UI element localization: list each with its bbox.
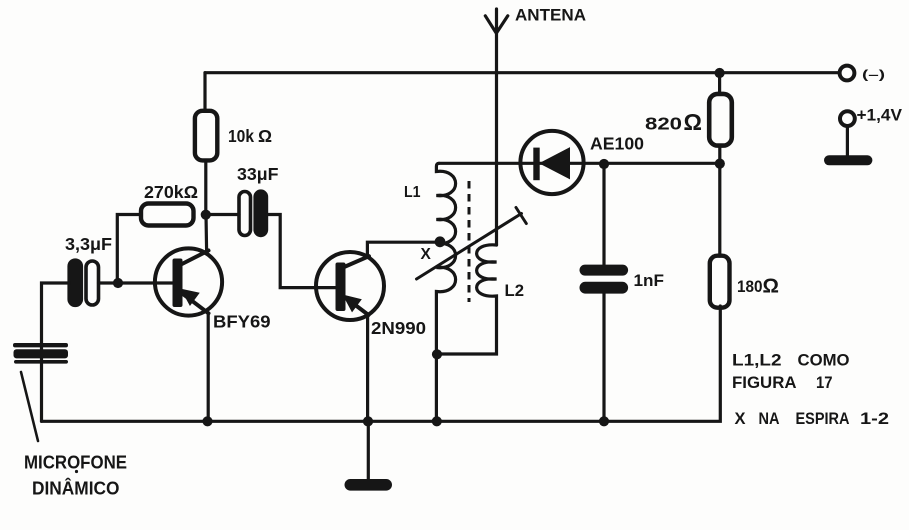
diode AE100 — [520, 131, 583, 194]
svg-text:1-2: 1-2 — [860, 410, 889, 428]
svg-text:33μF: 33μF — [237, 164, 279, 184]
terminal +1.4V — [840, 111, 855, 126]
label X NA ESPIRA 1-2 — [735, 410, 890, 428]
microphone pointer line — [21, 372, 38, 441]
wire 2N990 collector to X tap — [367, 242, 440, 257]
wire rail corner down to 10k top — [203, 73, 206, 111]
wire junction to 33uF — [206, 213, 239, 216]
svg-text:3,3μF: 3,3μF — [65, 234, 112, 254]
coil L2 — [437, 245, 497, 354]
transistor 2N990 — [316, 252, 384, 320]
wire top rail — [205, 71, 840, 74]
capacitor 1nF — [580, 265, 629, 294]
junction node 1nF rail — [599, 416, 609, 426]
wire +1.4V stem — [846, 126, 849, 157]
junction node base of 10k — [201, 210, 211, 220]
wire 820 top — [718, 73, 721, 94]
svg-text:ESPIRA: ESPIRA — [796, 410, 850, 428]
coil L1 — [436, 163, 455, 421]
junction node L1 bottom rail — [432, 416, 442, 426]
svg-text:820: 820 — [645, 114, 682, 134]
svg-text:FIGURA: FIGURA — [732, 374, 797, 392]
wire bottom rail — [42, 306, 721, 421]
label (-) — [862, 67, 885, 81]
svg-text:+1,4V: +1,4V — [857, 107, 903, 125]
label 270kO — [144, 182, 198, 202]
svg-text:DINÂMICO: DINÂMICO — [32, 478, 120, 499]
trimmer arrow — [417, 208, 527, 280]
svg-text:X: X — [735, 410, 746, 428]
label BFY69 — [213, 312, 271, 332]
svg-text:Ω: Ω — [258, 126, 272, 146]
wire BFY69 emitter to rail — [207, 313, 210, 421]
label 2N990 — [371, 318, 426, 338]
label X tap — [421, 246, 432, 263]
transistor BFY69 — [155, 248, 222, 315]
svg-text:MICROFONE: MICROFONE — [24, 453, 127, 473]
label +1.4V — [857, 107, 903, 125]
junction node base BFY69 — [113, 278, 123, 288]
svg-text:(–): (–) — [862, 67, 885, 81]
label L2 — [505, 282, 525, 300]
wire 3.3uF right to base node — [99, 281, 119, 284]
junction node 2N990 emitter rail — [363, 416, 373, 426]
resistor 10k — [195, 111, 217, 161]
junction node L2 return — [432, 349, 442, 359]
resistor 820 — [709, 94, 732, 146]
label 1nF — [634, 271, 665, 290]
capacitor 33uF — [239, 191, 267, 236]
svg-text:COMO: COMO — [798, 352, 850, 370]
svg-text:L2: L2 — [505, 282, 525, 300]
antenna — [485, 9, 508, 245]
svg-text:BFY69: BFY69 — [213, 312, 271, 332]
ground at +1.4V — [824, 155, 872, 165]
label 10kO — [228, 126, 272, 146]
label DINAMICO — [32, 478, 120, 499]
label FIGURA 17 — [732, 374, 833, 392]
label 820O — [645, 109, 702, 135]
svg-text:X: X — [421, 246, 432, 263]
junction node rail to 820 — [715, 68, 725, 78]
label 33uF — [237, 164, 279, 184]
svg-text:180: 180 — [737, 277, 763, 296]
junction node diode to 820 — [715, 159, 725, 169]
wire 820 bottom to 180 top — [718, 146, 721, 256]
resistor 270k — [141, 204, 194, 226]
label L1 — [404, 184, 421, 201]
wire 1nF top — [602, 164, 605, 265]
svg-text:1nF: 1nF — [634, 271, 665, 290]
junction node X tap — [435, 236, 446, 247]
label ANTENA — [515, 7, 586, 25]
svg-text:AE100: AE100 — [590, 134, 644, 154]
label L1 L2 COMO — [732, 352, 850, 370]
wire 270k left lead down to base node — [117, 215, 141, 284]
label 3.3uF — [65, 234, 112, 254]
junction node diode to 1nF — [599, 159, 609, 169]
svg-text:L1: L1 — [404, 184, 421, 201]
resistor 180 — [710, 256, 730, 308]
label MICROFONE — [24, 453, 127, 473]
label 180O — [737, 275, 779, 298]
wire base node to BFY69 — [118, 281, 174, 284]
junction node BFY69 emitter rail — [202, 416, 212, 426]
capacitor 3.3uF — [69, 260, 99, 306]
svg-text:Ω: Ω — [684, 109, 702, 135]
wire 10k bottom to BFY69 collector — [204, 160, 208, 250]
svg-text:NA: NA — [759, 410, 780, 428]
terminal (-) — [840, 66, 855, 81]
wire 2N990 emitter to rail — [366, 315, 369, 422]
svg-text:10k: 10k — [228, 126, 254, 146]
svg-text:2N990: 2N990 — [371, 318, 426, 338]
svg-text:Ω: Ω — [763, 275, 779, 298]
label AE100 — [590, 134, 644, 154]
wire diode row — [439, 162, 720, 165]
svg-text:L1,L2: L1,L2 — [732, 352, 782, 370]
svg-text:17: 17 — [816, 374, 833, 392]
svg-text:270kΩ: 270kΩ — [144, 182, 198, 202]
svg-text:ANTENA: ANTENA — [515, 7, 586, 25]
ground below 2N990 — [345, 421, 393, 490]
wire 1nF bottom — [602, 294, 605, 422]
microphone dynamic — [13, 343, 68, 364]
coil ferrite dashed line — [468, 181, 471, 302]
wire 33uF to 2N990 base — [267, 215, 336, 288]
wire 3.3uF left down to microphone — [42, 283, 70, 421]
